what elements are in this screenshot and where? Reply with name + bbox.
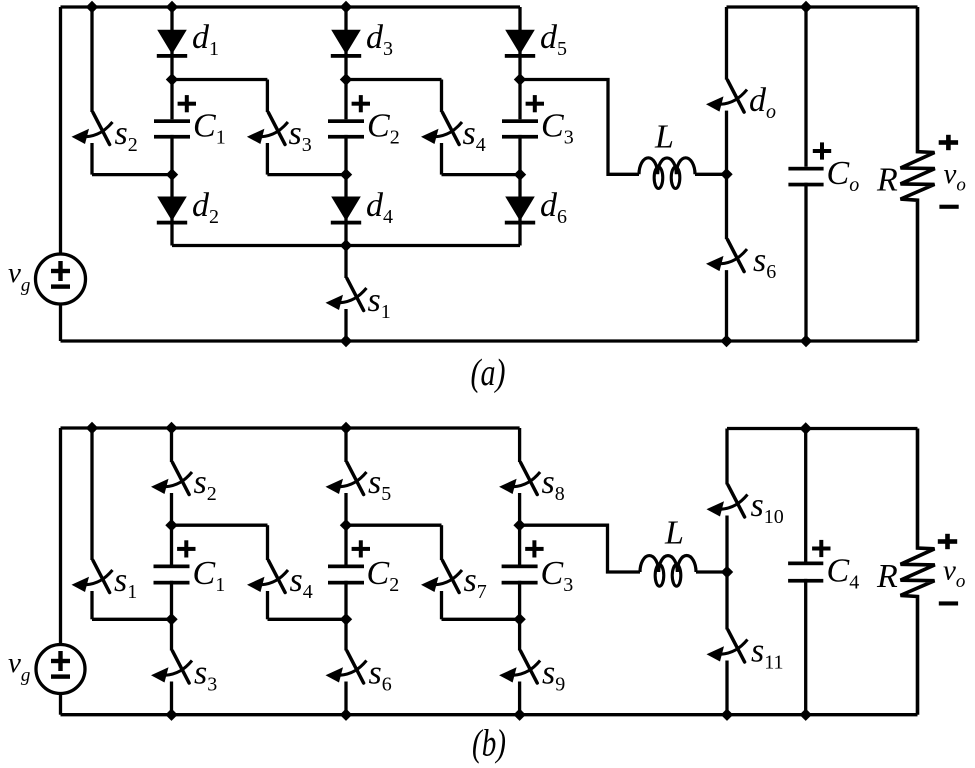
switch-diode d_o (a) xyxy=(706,7,747,174)
capacitor C_o (a) xyxy=(788,7,831,341)
junction bottom rail at C_o (a) xyxy=(800,335,812,347)
svg-text:(b): (b) xyxy=(472,723,506,765)
wire d3 node to s4 (a) xyxy=(346,78,442,81)
junction bottom rail at s6 (b) xyxy=(340,709,352,721)
inductor L (b) xyxy=(640,555,696,586)
diode d3 xyxy=(331,7,361,80)
switch s10 (b) xyxy=(707,429,748,573)
junction inductor output node (b) xyxy=(721,566,733,578)
junction top rail at s5 (b) xyxy=(340,422,352,434)
junction inductor output node (a) xyxy=(720,168,732,180)
switch s2 (a) xyxy=(72,7,113,175)
junction d3-C2 node (a) xyxy=(340,73,352,85)
wire d5 node to inductor (a) xyxy=(520,80,639,175)
switch s4 (b) xyxy=(247,525,288,619)
switch s2 (b) xyxy=(151,428,192,525)
voltage source v_g (a) xyxy=(36,254,86,304)
switch s7 (b) xyxy=(421,525,462,619)
junction C2 top node (b) xyxy=(340,519,352,531)
switch s5 (b) xyxy=(326,428,367,525)
capacitor C1 (b) xyxy=(154,525,196,619)
switch s3 (b) xyxy=(151,619,192,714)
junction C1 bottom node (b) xyxy=(165,613,177,625)
wire s2 bottom to C1 node (a) xyxy=(92,173,172,176)
wire top rail (b) xyxy=(61,426,520,429)
wire C1 top node to s4 (b) xyxy=(172,524,268,527)
junction C1 top node (b) xyxy=(165,519,177,531)
switch s6 (b) xyxy=(326,619,367,714)
junction top rail at C4 (b) xyxy=(800,422,812,434)
capacitor C3 (b) xyxy=(502,525,544,619)
junction top rail at C_o (a) xyxy=(800,1,812,13)
switch s8 (b) xyxy=(499,428,540,525)
wire d1 node to s3 (a) xyxy=(172,78,267,81)
wire left rail upper (a) xyxy=(59,7,62,255)
junction bottom rail at s11 (b) xyxy=(721,709,733,721)
junction bottom rail at s6 (a) xyxy=(720,335,732,347)
wire top right rail (b) xyxy=(727,427,918,430)
junction mid bus at s1 (a) xyxy=(340,239,352,251)
label v_o minus (a) xyxy=(939,205,958,209)
junction C2 bottom node (b) xyxy=(340,613,352,625)
wire left rail lower (a) xyxy=(59,303,62,341)
junction bottom rail at s3 (b) xyxy=(165,709,177,721)
resistor R (a) xyxy=(901,7,935,341)
switch s1 (a) xyxy=(326,246,367,342)
svg-text:L: L xyxy=(654,119,674,156)
junction top rail at s1 (b) xyxy=(86,422,98,434)
capacitor C1 (a) xyxy=(154,80,196,175)
switch s4 (a) xyxy=(421,80,462,175)
junction d1-C1 node (a) xyxy=(166,73,178,85)
wire top rail (a) xyxy=(61,5,521,8)
capacitor C3 (a) xyxy=(502,80,544,175)
wire left rail upper (b) xyxy=(59,428,62,645)
svg-text:(a): (a) xyxy=(471,352,506,394)
switch s1 (b) xyxy=(72,428,113,619)
junction C3 bottom node (a) xyxy=(514,168,526,180)
wire C2 top node to s7 (b) xyxy=(346,524,442,527)
svg-text:L: L xyxy=(664,515,684,552)
wire bottom rail (b) xyxy=(61,713,918,716)
wire top right rail (a) xyxy=(727,5,918,8)
diode d2 xyxy=(157,175,187,246)
switch s9 (b) xyxy=(499,619,540,714)
svg-text:R: R xyxy=(876,558,898,595)
voltage source v_g (b) xyxy=(36,645,85,694)
diode d1 xyxy=(157,7,187,80)
junction top rail at d3 (a) xyxy=(340,1,352,13)
label v_o plus (b) xyxy=(938,539,957,544)
junction C1 bottom node (a) xyxy=(166,168,178,180)
capacitor C2 (b) xyxy=(328,525,370,619)
label v_o minus (b) xyxy=(939,601,958,605)
wire inductor to node (b) xyxy=(696,570,727,573)
diode d6 xyxy=(505,175,535,246)
capacitor C4 (b) xyxy=(788,429,830,715)
wire s1 bottom to C1 node (b) xyxy=(92,618,172,621)
diode d5 xyxy=(505,7,535,80)
junction bottom rail at s9 (b) xyxy=(513,709,525,721)
wire inductor to node (a) xyxy=(695,173,727,176)
inductor L (a) xyxy=(639,158,695,189)
switch s11 (b) xyxy=(707,572,748,715)
switch s3 (a) xyxy=(247,80,288,175)
wire C3 top node to inductor (b) xyxy=(520,525,640,572)
junction top rail at s2 (b) xyxy=(165,422,177,434)
junction d5-C3 node (a) xyxy=(514,73,526,85)
svg-text:R: R xyxy=(876,162,898,199)
wire s7 bottom to C3 node (b) xyxy=(442,618,520,621)
junction bottom rail at s1 (a) xyxy=(340,335,352,347)
wire s4 bottom to C3 node (a) xyxy=(442,173,521,176)
wire s4 bottom to C2 node (b) xyxy=(268,618,347,621)
capacitor C2 (a) xyxy=(328,80,370,175)
junction C3 bottom node (b) xyxy=(513,613,525,625)
wire mid bus (a) xyxy=(172,244,520,247)
junction top rail at s2 (a) xyxy=(86,1,98,13)
junction bottom rail at C4 (b) xyxy=(800,709,812,721)
resistor R (b) xyxy=(901,429,935,715)
junction C3 top node (b) xyxy=(513,519,525,531)
junction C2 bottom node (a) xyxy=(340,168,352,180)
diode d4 xyxy=(331,175,361,246)
wire left rail lower (b) xyxy=(59,693,62,715)
wire bottom rail (a) xyxy=(61,339,918,342)
label v_o plus (a) xyxy=(939,140,958,145)
junction top rail at d1 (a) xyxy=(166,1,178,13)
wire s3 bottom to C2 node (a) xyxy=(267,173,346,176)
switch s6 (a) xyxy=(706,174,747,341)
